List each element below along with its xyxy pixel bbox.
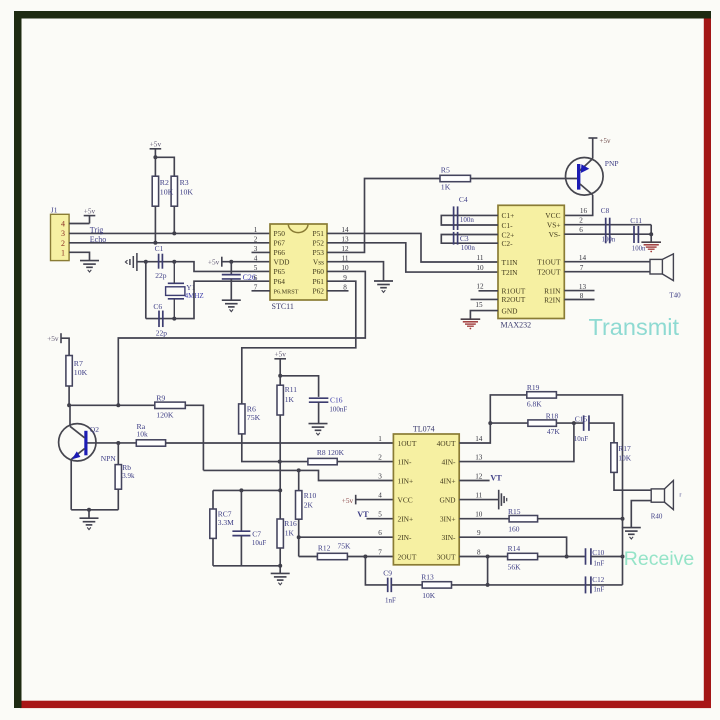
svg-text:P60: P60 <box>312 267 324 276</box>
MAX232 right pin labels <box>537 211 561 304</box>
wire R10 bottom to 2IN-/R12 <box>298 519 300 556</box>
svg-text:P65: P65 <box>274 267 286 276</box>
svg-text:R15: R15 <box>508 507 521 516</box>
resistor R3 <box>171 176 177 206</box>
svg-text:13: 13 <box>475 454 483 462</box>
svg-text:47K: 47K <box>547 427 561 436</box>
speaker R40 (receive transducer) <box>651 481 673 510</box>
TL074 right pin labels <box>437 439 457 562</box>
svg-text:2: 2 <box>254 235 258 243</box>
capacitor C10 <box>586 548 591 565</box>
wire to R12 <box>299 556 318 558</box>
wire STC11 P61 (pin9) long run to R6 top <box>242 281 356 404</box>
svg-text:R17: R17 <box>618 444 631 453</box>
wire STC11 P53 (pin12) up to R5 <box>327 179 440 253</box>
svg-text:P50: P50 <box>274 229 286 238</box>
svg-text:1: 1 <box>378 435 382 443</box>
svg-text:Trig: Trig <box>90 226 104 235</box>
wire R2IN stub (pin8) <box>564 299 594 301</box>
wire Echo row (J1 pin2 to STC11 P67) <box>69 242 270 244</box>
resistor R12 <box>317 553 347 559</box>
svg-text:r: r <box>679 492 681 498</box>
ground below Q2 <box>80 518 99 529</box>
wire STC11 P52 (pin13) to MAX232 T2IN <box>327 243 498 272</box>
wire 3OUT (pin8) row to R14 <box>459 556 507 558</box>
svg-text:T2OUT: T2OUT <box>537 268 561 277</box>
junction 3IN-/R14/C10 <box>565 555 569 559</box>
svg-text:+5v: +5v <box>47 334 59 343</box>
svg-text:R16: R16 <box>284 519 297 528</box>
svg-text:C2-: C2- <box>502 239 514 248</box>
wire 3IN- (pin9) down to R14 row <box>459 537 566 556</box>
svg-text:1IN-: 1IN- <box>398 457 412 466</box>
svg-text:Rb: Rb <box>122 463 131 472</box>
wire node B row <box>213 565 280 567</box>
svg-text:5: 5 <box>254 264 258 272</box>
capacitor C26 <box>222 275 241 279</box>
svg-text:10k: 10k <box>137 430 149 439</box>
capacitor C16 <box>309 398 329 402</box>
junction R2/Echo <box>153 241 157 245</box>
svg-text:C7: C7 <box>252 529 261 538</box>
junction R7/Q2 collector/R9 <box>67 403 71 407</box>
svg-text:6: 6 <box>579 226 583 234</box>
junction C1/Y1 top <box>172 260 176 264</box>
junction R11 joins 1IN- row <box>278 460 282 464</box>
svg-text:R14: R14 <box>508 544 521 553</box>
wire C10 to node X <box>591 556 623 558</box>
wire RC7 bottom to node B <box>212 538 214 565</box>
svg-text:2: 2 <box>61 239 65 248</box>
wire R2OUT stub <box>471 298 499 300</box>
svg-text:2IN-: 2IN- <box>398 533 412 542</box>
svg-text:22p: 22p <box>155 271 167 280</box>
wire T1OUT (pin14) to T40 <box>564 261 650 263</box>
wire C26 to ground <box>230 279 232 300</box>
svg-text:STC11: STC11 <box>272 302 294 311</box>
wire +5v to TL074 VCC (pin4) <box>356 499 394 501</box>
svg-text:C16: C16 <box>330 396 343 405</box>
svg-text:C8: C8 <box>601 207 610 215</box>
wire R1IN stub (pin13) <box>564 290 594 292</box>
svg-text:10K: 10K <box>618 453 632 462</box>
junction R10 top <box>297 468 301 472</box>
wire C1+ / C1- loop for C4 <box>441 215 498 225</box>
resistor R2 <box>152 176 158 206</box>
wire STC11 P62 (pin8) stub <box>327 290 349 292</box>
wire T2OUT (pin7) to T40 <box>564 271 650 273</box>
svg-text:P51: P51 <box>312 229 324 238</box>
svg-text:10K: 10K <box>422 591 436 600</box>
op-amp U3 TL074 <box>393 434 459 565</box>
svg-text:11: 11 <box>475 492 482 500</box>
wire collector node row to R9 <box>69 404 155 406</box>
junction R3/Trig <box>172 231 176 235</box>
svg-text:1nF: 1nF <box>593 586 604 594</box>
wire 4IN- (pin13) up to R18 node <box>459 423 574 462</box>
svg-text:8: 8 <box>477 549 481 557</box>
svg-text:3.9k: 3.9k <box>122 472 135 480</box>
svg-text:100n: 100n <box>602 237 616 244</box>
svg-text:10: 10 <box>475 511 483 519</box>
svg-text:15: 15 <box>475 301 483 309</box>
ground at STC11 Vss <box>374 281 393 292</box>
wire C2+ / C2- loop for C3 <box>441 235 498 244</box>
resistor R16 <box>277 519 283 548</box>
svg-text:12: 12 <box>476 283 484 291</box>
svg-text:10K: 10K <box>74 368 88 377</box>
MAX232 pin numbers <box>475 207 587 309</box>
svg-text:6: 6 <box>254 274 258 282</box>
svg-text:R12: R12 <box>318 543 331 552</box>
svg-text:PNP: PNP <box>605 159 619 168</box>
wire Rb bottom down <box>117 489 119 510</box>
wire STC11 P51 (pin14) to MAX232 T1IN <box>327 233 498 262</box>
svg-text:C11: C11 <box>630 217 642 225</box>
wire R5 to Q base (PNP) <box>471 178 578 180</box>
svg-text:11: 11 <box>477 254 484 262</box>
resistor R8 <box>308 458 337 464</box>
svg-text:Transmit: Transmit <box>589 314 680 340</box>
svg-text:P53: P53 <box>312 248 324 257</box>
svg-text:P62: P62 <box>312 287 324 296</box>
wire R11 bottom / node A / R16 chain <box>279 415 281 519</box>
wire R3 bottom to Trig row <box>173 206 175 233</box>
junction node A / C7 <box>239 488 243 492</box>
capacitor C3 <box>454 232 458 245</box>
svg-text:R2IN: R2IN <box>544 295 561 304</box>
ground below C26 <box>222 300 241 311</box>
wire VS+ (pin2) row <box>564 224 651 226</box>
svg-text:R2OUT: R2OUT <box>502 295 526 304</box>
svg-text:P61: P61 <box>312 277 324 286</box>
svg-text:3OUT: 3OUT <box>437 552 456 561</box>
junction +5v/C16 branch <box>278 374 282 378</box>
J1 pin numbers 4,3,2,1 <box>61 220 65 258</box>
wire R1OUT stub (pin12) <box>479 290 499 292</box>
resistor R14 <box>508 553 538 559</box>
wire base node to Rb <box>117 443 119 465</box>
junction C10/node X <box>621 555 625 559</box>
+5v supply at VDD <box>208 257 222 267</box>
svg-text:160: 160 <box>508 525 520 534</box>
svg-text:4: 4 <box>378 492 382 500</box>
wire R13 / C12 row to node X <box>452 584 623 586</box>
svg-text:C12: C12 <box>592 576 604 584</box>
junction 4OUT / R18 branch <box>488 421 492 425</box>
capacitor C11 <box>634 226 638 243</box>
svg-text:10K: 10K <box>180 188 194 197</box>
svg-text:3.3M: 3.3M <box>218 518 234 527</box>
svg-text:R5: R5 <box>441 165 450 174</box>
wire C1 row <box>146 261 175 263</box>
ground below MAX232 GND (earth, dark red) <box>461 319 481 329</box>
svg-text:T1IN: T1IN <box>502 258 519 267</box>
resistor Rb <box>115 465 121 490</box>
wire C15 to R17 top <box>589 423 614 443</box>
wire C7 bottom stem <box>240 536 242 566</box>
svg-text:100n: 100n <box>461 244 476 252</box>
svg-text:10: 10 <box>476 264 484 272</box>
wire C9 to R13 <box>391 584 422 586</box>
speaker T40 (transmit transducer) <box>650 254 673 281</box>
svg-text:6: 6 <box>378 529 382 537</box>
wire STC11 Vss (pin11) to ground <box>327 262 384 281</box>
svg-text:75K: 75K <box>247 413 261 422</box>
+5v supply above R11 <box>274 350 286 359</box>
svg-text:4IN+: 4IN+ <box>440 476 456 485</box>
svg-text:Echo: Echo <box>90 235 106 244</box>
capacitor C8 <box>606 218 610 244</box>
svg-text:2: 2 <box>579 217 583 225</box>
svg-text:+5v: +5v <box>84 206 96 215</box>
svg-text:C1+: C1+ <box>502 211 515 220</box>
svg-text:NPN: NPN <box>101 454 117 463</box>
ground below C16 <box>309 424 328 435</box>
resistor R5 <box>440 175 471 181</box>
+5v supply at R7 <box>47 333 61 343</box>
svg-text:22p: 22p <box>156 328 168 337</box>
resistor R6 <box>239 404 245 434</box>
svg-text:+5v: +5v <box>208 257 220 266</box>
svg-text:7: 7 <box>378 549 382 557</box>
svg-text:2K: 2K <box>304 500 314 509</box>
svg-text:100n: 100n <box>460 216 475 224</box>
svg-text:2IN+: 2IN+ <box>398 515 414 524</box>
resistor R19 <box>527 392 557 398</box>
svg-text:C9: C9 <box>383 569 392 578</box>
+5v supply at TL074 VCC <box>342 495 356 505</box>
junction C1 left node <box>144 260 148 264</box>
STC11 right pin numbers 14-8 <box>341 226 349 291</box>
wire 3IN+ (pin10) to R15 <box>459 518 509 520</box>
resistor R7 <box>66 356 72 387</box>
wire 3OUT down to C12 row <box>487 557 489 585</box>
svg-text:+5v: +5v <box>150 140 162 149</box>
capacitor C6 <box>159 311 163 328</box>
svg-text:Receive: Receive <box>624 548 694 570</box>
wire Trig row (J1 pin3 to STC11 P50) <box>69 232 270 234</box>
wire STC11 pin7 stub <box>252 290 271 292</box>
IC U2 MAX232 <box>498 205 564 318</box>
wire R14 to C10 <box>538 556 585 558</box>
svg-text:R7: R7 <box>74 359 83 368</box>
wire C6 row left <box>146 318 175 320</box>
svg-text:Vss: Vss <box>313 257 324 266</box>
wire left loop down to C6 row <box>145 262 147 319</box>
svg-text:VCC: VCC <box>545 211 560 220</box>
wire ground to C1 node <box>137 261 146 263</box>
wire STC11 pin3 stub <box>252 251 271 253</box>
TL074 left pin labels <box>398 439 417 562</box>
svg-text:T1OUT: T1OUT <box>537 258 561 267</box>
svg-text:+5v: +5v <box>274 350 286 359</box>
wire Q2 collector up <box>69 405 71 426</box>
svg-text:P64: P64 <box>274 277 286 286</box>
wire VT stub to 2IN+ (pin5) <box>367 518 394 520</box>
svg-text:5: 5 <box>378 511 382 519</box>
wire node A row <box>213 489 280 491</box>
svg-text:T2IN: T2IN <box>502 268 519 277</box>
wire R8 to TL074 1IN- (pin2) <box>337 461 393 463</box>
crystal Y1 <box>166 262 185 319</box>
ground below R40 <box>622 528 641 539</box>
svg-text:R10: R10 <box>304 491 317 500</box>
wire run to TL074 1IN+ (pin3) <box>203 470 393 480</box>
svg-text:R3: R3 <box>180 178 189 187</box>
svg-text:1nF: 1nF <box>593 560 604 568</box>
svg-text:R11: R11 <box>285 385 297 394</box>
wire R9 right down to 1IN+ run <box>185 405 203 470</box>
wire GND stub (pin11) <box>459 499 498 501</box>
svg-text:1: 1 <box>254 226 258 234</box>
wire 4IN+ stub (pin12) <box>459 480 489 482</box>
resistor Ra <box>136 440 165 446</box>
resistor R18 <box>528 420 557 426</box>
svg-text:R9: R9 <box>156 393 165 402</box>
svg-text:C1: C1 <box>155 244 164 253</box>
svg-text:75K: 75K <box>338 542 352 551</box>
+5v supply at PNP <box>588 137 611 145</box>
wire VDD node down to C26 <box>230 262 232 275</box>
wire node A to RC7 <box>212 490 214 509</box>
svg-text:C15: C15 <box>575 414 588 423</box>
ground at J1 <box>80 261 99 272</box>
wire R40 bottom to ground <box>631 501 651 527</box>
svg-text:P6.MRST: P6.MRST <box>274 289 299 296</box>
svg-text:3IN-: 3IN- <box>442 533 456 542</box>
wire R10 top stem <box>298 470 300 490</box>
junction R15/node X <box>621 517 625 521</box>
wire PNP collector to MAX232 VCC (pin16) <box>564 195 592 216</box>
ground below R16 <box>271 573 290 584</box>
svg-text:10nF: 10nF <box>574 435 589 443</box>
svg-text:120K: 120K <box>327 448 344 457</box>
STC11 left pin numbers 1-7 <box>254 226 258 291</box>
wire branch to C16 <box>280 376 318 397</box>
+5v supply above R2 R3 <box>150 140 162 149</box>
svg-text:MAX232: MAX232 <box>501 320 532 329</box>
svg-text:3IN+: 3IN+ <box>440 515 456 524</box>
wire R7 bottom to collector node <box>68 386 70 405</box>
svg-text:VT: VT <box>357 510 369 519</box>
wire 2OUT branch down to C9 <box>365 557 387 585</box>
svg-text:R8: R8 <box>317 448 326 457</box>
svg-text:120K: 120K <box>156 410 174 419</box>
wire VS+ down to VS- join <box>650 225 652 242</box>
wire branch to R3 top <box>155 157 174 176</box>
+5v supply at J1 pin4 <box>84 206 96 215</box>
capacitor C4 <box>454 206 458 230</box>
svg-text:100nF: 100nF <box>329 405 347 413</box>
wire +5v to R11 <box>279 359 281 385</box>
wire C7 top stem <box>240 490 242 531</box>
ground at C1 (rotated) <box>125 253 136 271</box>
wire Q2 base row to Ra <box>88 442 137 444</box>
svg-text:R18: R18 <box>546 411 559 420</box>
svg-text:R1IN: R1IN <box>544 286 561 295</box>
svg-text:VDD: VDD <box>274 257 291 266</box>
svg-text:7: 7 <box>580 264 584 272</box>
svg-text:C3: C3 <box>460 234 469 243</box>
svg-text:16: 16 <box>580 207 588 215</box>
svg-text:10K: 10K <box>160 188 174 197</box>
wire R12 to TL074 2OUT (pin7) <box>347 556 393 558</box>
svg-text:+5v: +5v <box>600 137 611 145</box>
svg-text:13: 13 <box>579 283 587 291</box>
wire J1 pin4 to +5v <box>69 223 89 225</box>
wire PNP emitter to +5v <box>592 138 594 159</box>
capacitor C15 <box>584 415 589 431</box>
svg-text:12: 12 <box>475 473 483 481</box>
STC11 right pin labels <box>312 229 324 295</box>
wire Ra to TL074 1OUT (pin1) <box>166 442 394 444</box>
wire emitter row <box>71 509 118 511</box>
svg-text:1K: 1K <box>285 528 295 537</box>
junction 3OUT/C12 branch <box>486 555 490 559</box>
wire R16 bottom to ground <box>279 548 281 573</box>
svg-text:P52: P52 <box>312 239 324 248</box>
wire C1 node to STC11 P65 (pin5) <box>174 262 270 272</box>
MAX232 left pin labels <box>502 211 526 315</box>
svg-text:1K: 1K <box>285 395 295 404</box>
svg-text:1: 1 <box>61 248 65 257</box>
junction 2OUT / C9 branch <box>363 555 367 559</box>
svg-text:4OUT: 4OUT <box>437 439 456 448</box>
svg-text:3: 3 <box>61 229 65 238</box>
resistor RC7 <box>210 509 216 538</box>
capacitor C1 <box>159 254 163 269</box>
svg-text:4: 4 <box>61 220 65 229</box>
svg-text:R13: R13 <box>421 573 434 582</box>
svg-text:P67: P67 <box>274 239 286 248</box>
junction node A <box>278 488 282 492</box>
transistor Q (PNP) <box>566 158 604 196</box>
svg-text:P66: P66 <box>274 248 286 257</box>
svg-text:GND: GND <box>502 306 519 315</box>
svg-text:VS+: VS+ <box>547 221 561 230</box>
svg-text:1K: 1K <box>441 183 451 192</box>
capacitor C9 <box>388 578 392 593</box>
svg-text:GND: GND <box>439 495 456 504</box>
resistor R9 <box>155 402 186 408</box>
svg-text:2: 2 <box>378 454 382 462</box>
svg-text:C1-: C1- <box>502 221 514 230</box>
svg-text:1OUT: 1OUT <box>398 439 417 448</box>
svg-text:10uF: 10uF <box>252 539 267 547</box>
ground at TL074 GND (rotated) <box>499 490 507 510</box>
wire GND pin15 to earth <box>470 311 498 319</box>
resistor R11 <box>277 385 283 415</box>
junction R10 / 2IN- row <box>297 535 301 539</box>
svg-text:6.8K: 6.8K <box>527 399 542 408</box>
wire 4OUT (pin14) up to R19 row <box>459 395 527 443</box>
wire +5v to R2 top <box>154 149 156 176</box>
resistor R10 <box>296 491 302 520</box>
capacitor C7 <box>232 531 250 535</box>
resistor R17 <box>611 443 617 473</box>
junction 4IN- joins R18/C15 <box>572 421 576 425</box>
junction R13/C12 row join <box>486 583 490 587</box>
wire J1 pin1 to ground <box>69 252 89 260</box>
svg-text:VT: VT <box>490 473 502 482</box>
svg-text:C4: C4 <box>459 195 468 204</box>
wire R17 bottom to R40 top <box>614 472 651 490</box>
svg-text:1IN+: 1IN+ <box>398 476 414 485</box>
svg-text:1nF: 1nF <box>385 597 396 605</box>
svg-text:2OUT: 2OUT <box>398 552 417 561</box>
svg-text:J1: J1 <box>51 205 58 214</box>
